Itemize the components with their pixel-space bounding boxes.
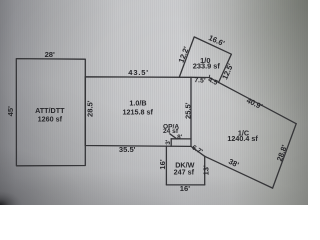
room 1/0 outline (left, top, right walls) [179, 37, 231, 83]
room 1.0/B outline [85, 77, 191, 147]
svg-text:1260 sf: 1260 sf [38, 114, 63, 123]
svg-text:43.5': 43.5' [128, 68, 149, 77]
svg-text:13': 13' [201, 165, 210, 175]
svg-text:28.5': 28.5' [86, 100, 95, 117]
wall 40.9ft (1/C top edge) [219, 82, 297, 123]
svg-text:45': 45' [6, 106, 15, 116]
svg-text:16': 16' [158, 159, 167, 169]
bottom-center soft shading [0, 171, 320, 240]
bottom-left dark corner wedge [0, 148, 85, 205]
wall segment: 1/0 bottom 4.5ft [209, 78, 218, 83]
room DK/W bottom wall 16ft [166, 184, 204, 186]
wall 38ft (1/C bottom edge) [205, 156, 273, 188]
leader line from 24 sf label to OP/A box [170, 134, 177, 139]
svg-text:7.5': 7.5' [194, 77, 206, 85]
svg-text:25.5': 25.5' [183, 102, 192, 119]
svg-text:247 sf: 247 sf [174, 168, 195, 177]
porch OP/A box left wall 3ft [170, 139, 172, 146]
svg-text:35.5': 35.5' [119, 145, 136, 154]
top-right corner shading [175, 0, 308, 125]
svg-text:8': 8' [177, 134, 183, 141]
room DK/W left wall 16ft [165, 146, 167, 185]
svg-text:16': 16' [180, 184, 190, 193]
svg-text:1.0/B: 1.0/B [129, 98, 146, 107]
wall 6.7ft (diagonal from 1.0/B corner to 1/C) [191, 146, 205, 156]
room DK/W right wall 13ft [204, 156, 206, 185]
svg-text:3': 3' [165, 139, 172, 145]
porch OP/A box top wall 8ft [171, 138, 191, 140]
svg-text:1240.4 sf: 1240.4 sf [227, 134, 258, 143]
tick mark at 7.5/4.5 split [208, 75, 210, 77]
wall 28.8ft (1/C right edge) [273, 124, 297, 188]
room ATT/DTT outline [16, 59, 85, 166]
svg-text:233.9 sf: 233.9 sf [193, 62, 221, 71]
top-left corner shading [0, 0, 120, 90]
wall segment: 1/0 bottom 7.5ft (top edge extension) [191, 76, 209, 78]
svg-text:1215.8 sf: 1215.8 sf [123, 108, 154, 117]
svg-text:28': 28' [45, 50, 55, 59]
